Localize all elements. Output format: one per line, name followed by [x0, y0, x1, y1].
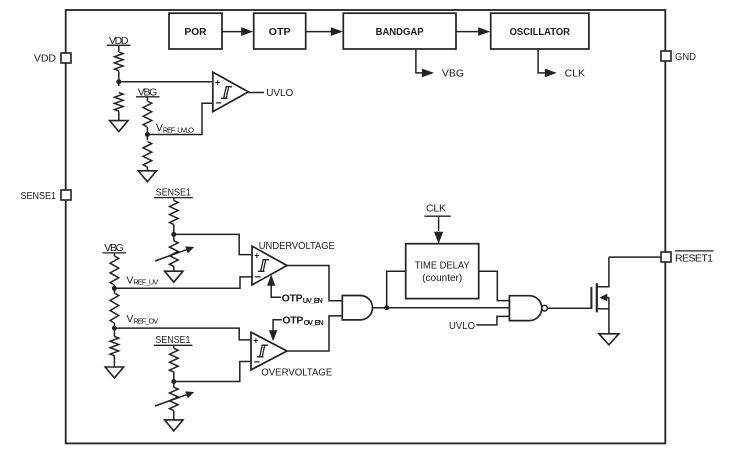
block OTP [254, 13, 306, 49]
variable resistor VR2 [155, 387, 194, 410]
wire node B to U1 minus input [147, 103, 212, 134]
svg-text:SENSE1: SENSE1 [21, 190, 57, 202]
wire CLK to TIME DELAY with arrow [434, 216, 443, 244]
svg-text:+: + [253, 336, 258, 346]
svg-text:OV_EN: OV_EN [304, 318, 324, 327]
node G (AND output junction) [384, 305, 389, 310]
block OSCILLATOR [491, 13, 589, 49]
wire node E to U3 plus input [114, 328, 251, 340]
ground G4 [105, 367, 123, 378]
node C (SENSE1 UV tap) [171, 232, 176, 237]
comparator U3 OVERVOLTAGE [251, 332, 332, 378]
wire VBG to R6 [113, 253, 115, 256]
wire VBG to R3 [146, 97, 148, 101]
resistor R5 [170, 201, 179, 225]
wire node C to U2 plus input [174, 234, 252, 254]
label VREF_UV [126, 274, 158, 286]
svg-text:UVLO: UVLO [266, 87, 293, 99]
net SENSE1 label (UV) [154, 187, 193, 199]
svg-text:OVERVOLTAGE: OVERVOLTAGE [261, 366, 332, 378]
svg-text:SENSE1: SENSE1 [155, 334, 190, 346]
svg-text:REF_UV: REF_UV [133, 278, 158, 287]
wire R5 to node C [173, 225, 175, 241]
svg-text:REF_UVLO: REF_UVLO [163, 125, 194, 134]
svg-text:REF_OV: REF_OV [133, 316, 158, 325]
node A (VDD sense) [116, 79, 121, 84]
block TIME DELAY (counter) [406, 244, 479, 299]
resistor R8 [110, 337, 119, 356]
pin SENSE1 [21, 190, 72, 202]
node B (VREF_UVLO) [145, 132, 150, 137]
svg-text:UV_EN: UV_EN [303, 296, 323, 305]
wire junction to NAND middle input [387, 307, 510, 309]
wire R1 to node A [118, 71, 120, 86]
svg-text:BANDGAP: BANDGAP [376, 26, 424, 38]
svg-text:CLK: CLK [426, 203, 446, 215]
ground G1 [110, 121, 128, 132]
wire SENSE1 to R9 [173, 345, 175, 348]
wire TIME DELAY output to NAND top input [479, 271, 510, 300]
svg-text:OTP: OTP [269, 26, 291, 38]
wire R3 to node B [146, 127, 148, 140]
pin RESET1 (active low) [661, 251, 714, 264]
svg-text:OTP: OTP [282, 315, 303, 327]
transistor Q1 (open-drain NMOS) [591, 257, 609, 334]
wire R6 to node D [113, 285, 115, 293]
label VREF_OV [126, 313, 158, 325]
wire BANDGAP to OSCILLATOR with arrow [456, 27, 490, 36]
resistor R6 [110, 256, 119, 285]
ground G5 [165, 420, 183, 431]
svg-text:TIME DELAY: TIME DELAY [415, 259, 470, 271]
wire R2 to ground [118, 111, 120, 120]
variable resistor VR1 [155, 241, 194, 267]
svg-text:UVLO: UVLO [449, 321, 475, 332]
wire U3 output to AND gate [287, 316, 342, 351]
svg-text:OTP: OTP [282, 292, 303, 304]
ground G2 [138, 171, 156, 182]
svg-text:RESET1: RESET1 [675, 252, 713, 264]
svg-text:−: − [254, 356, 260, 368]
svg-text:−: − [215, 98, 221, 110]
wire node A to U1 plus input [119, 81, 213, 83]
wire Q1 drain to RESET1 pin [609, 256, 661, 258]
resistor R4 [143, 142, 152, 168]
node E (VREF_OV) [112, 326, 117, 331]
wire R9 to node F [173, 372, 175, 387]
svg-text:+: + [215, 78, 220, 88]
ground G6 (Q1 source) [599, 334, 619, 345]
wire U5 output to Q1 gate [547, 307, 591, 309]
NAND gate U5 [509, 296, 547, 321]
comparator U2 UNDERVOLTAGE [252, 240, 335, 285]
AND gate U4 [342, 296, 372, 320]
wire U4 output to junction [373, 307, 387, 309]
wire node F to U3 minus input [174, 362, 251, 382]
wire POR to OTP with arrow [222, 27, 253, 36]
wire U1 output UVLO [248, 87, 293, 99]
net VDD label [107, 35, 131, 47]
svg-text:UNDERVOLTAGE: UNDERVOLTAGE [259, 240, 335, 252]
wire VDD to R1 [118, 45, 120, 52]
svg-text:POR: POR [185, 26, 207, 38]
wire R7 to node E [113, 323, 115, 337]
resistor R1 [115, 52, 124, 71]
svg-text:GND: GND [675, 51, 696, 63]
svg-text:−: − [255, 271, 261, 283]
net VBG label (UVLO ref) [136, 86, 160, 98]
resistor R2 [115, 93, 124, 112]
wire VR2 to ground [173, 411, 175, 420]
svg-text:(counter): (counter) [422, 272, 462, 284]
svg-text:SENSE1: SENSE1 [156, 187, 191, 199]
wire R4 to ground [146, 167, 148, 171]
OTP_UV_EN enable arrow [267, 275, 323, 305]
wire VR1 to ground [173, 266, 175, 271]
label VREF_UVLO [156, 122, 194, 134]
wire R8 to ground [113, 356, 115, 367]
pin GND [661, 51, 696, 63]
comparator U1 UVLO [213, 72, 249, 112]
block POR [169, 13, 222, 49]
resistor R9 [170, 348, 179, 372]
chip boundary [66, 10, 666, 443]
pin VDD [34, 53, 71, 65]
wire OTP to BANDGAP with arrow [306, 27, 343, 36]
net SENSE1 label (OV) [154, 334, 193, 346]
resistor R3 [143, 101, 152, 127]
svg-text:CLK: CLK [565, 68, 585, 80]
resistor R7 [110, 293, 119, 323]
node D (VREF_UV) [112, 286, 117, 291]
wire BANDGAP output VBG [416, 49, 464, 80]
OTP_OV_EN enable arrow [269, 315, 324, 342]
wire node D to U2 minus input [114, 277, 252, 288]
net CLK input label [424, 203, 450, 217]
wire OSCILLATOR output CLK [538, 49, 585, 80]
wire SENSE1 to R5 [173, 198, 175, 201]
svg-text:V: V [156, 122, 163, 134]
node F (SENSE1 OV tap) [171, 379, 176, 384]
block BANDGAP [343, 13, 456, 49]
svg-text:VDD: VDD [34, 53, 57, 65]
svg-text:OSCILLATOR: OSCILLATOR [510, 26, 571, 38]
svg-text:VBG: VBG [442, 68, 464, 80]
wire UVLO to NAND bottom input [477, 316, 510, 325]
ground G3 [165, 271, 183, 282]
wire U2 output to AND gate [287, 266, 342, 301]
wire junction to TIME DELAY input [387, 271, 406, 308]
net VBG label (ref divider) [103, 242, 127, 254]
